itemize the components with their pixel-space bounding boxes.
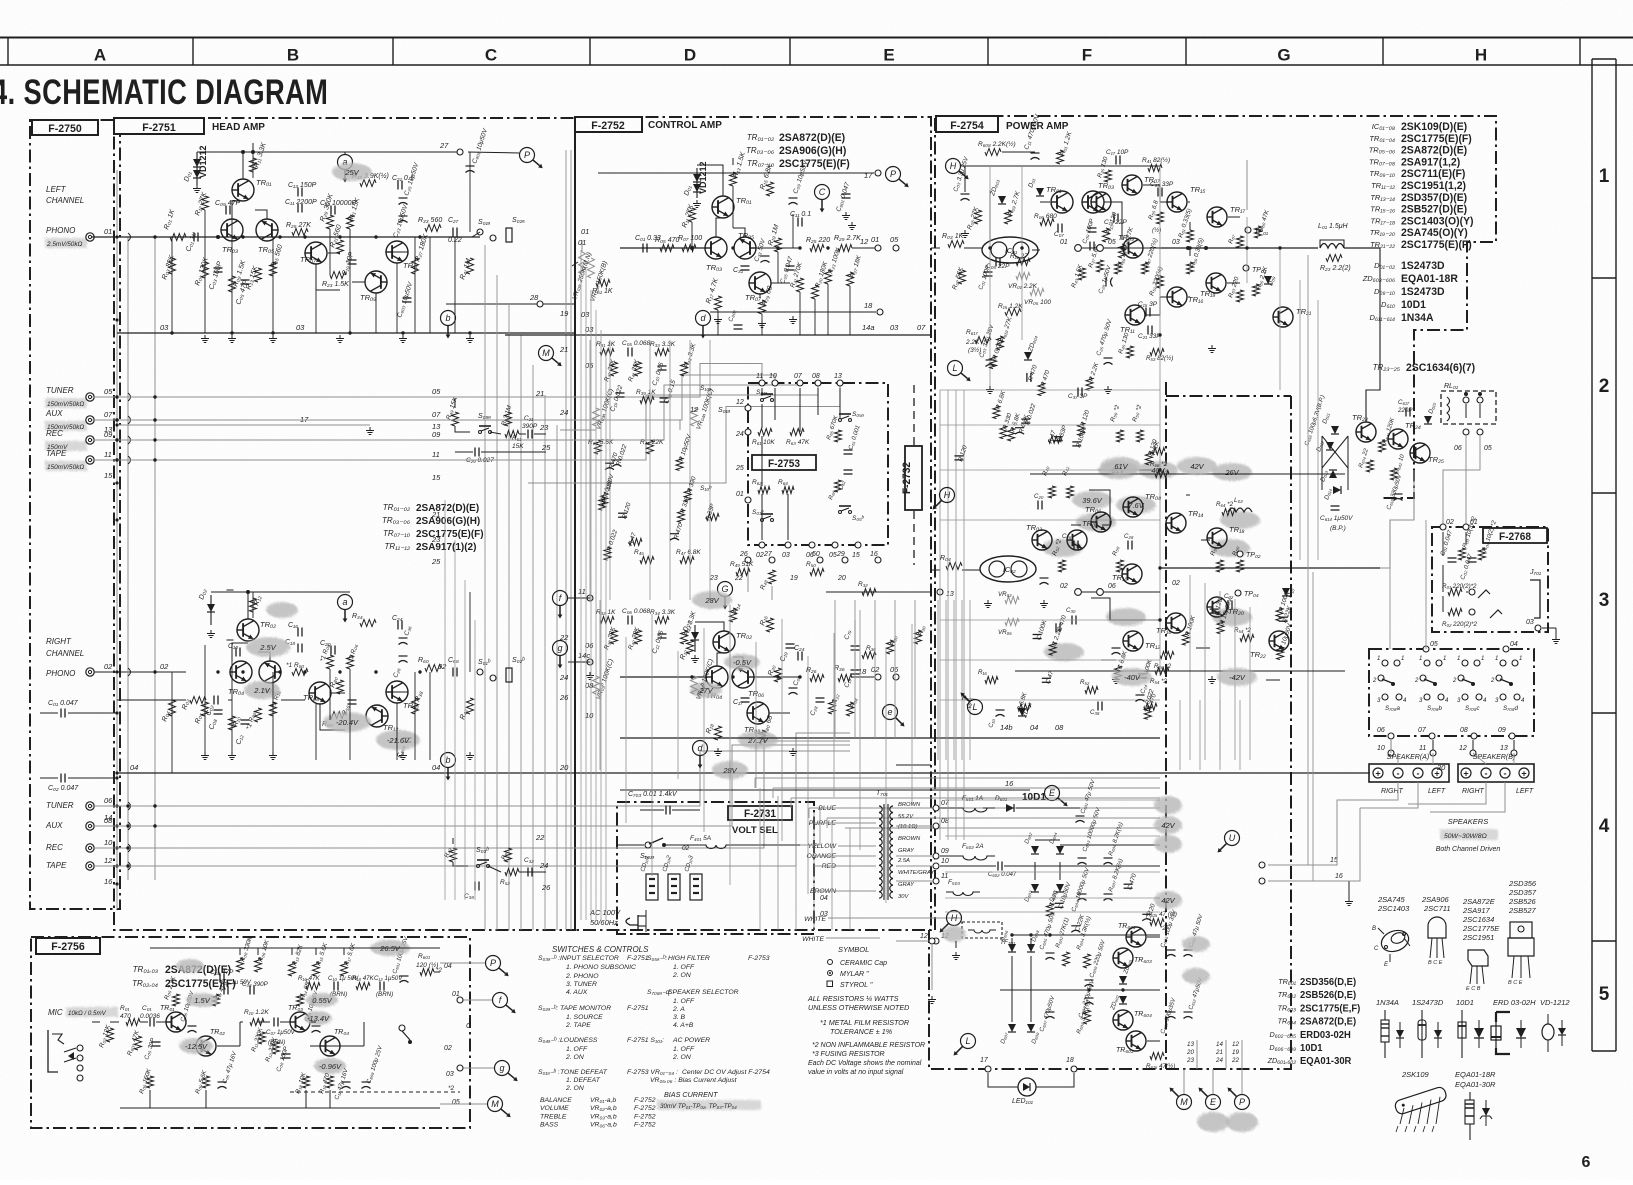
capacitor C801 bbox=[842, 193, 851, 195]
tone defeat sw mic bbox=[399, 1025, 405, 1031]
filler part C bbox=[1115, 666, 1122, 679]
R01 220 resistor bbox=[1448, 589, 1462, 596]
C608 C609 220u50V bbox=[1085, 979, 1094, 981]
filler part R bbox=[1145, 452, 1152, 465]
filler part R bbox=[993, 406, 1000, 419]
filler part R bbox=[1000, 426, 1007, 439]
connector L lower channel bbox=[968, 700, 983, 715]
VR02 VR06 pots lower bbox=[1005, 597, 1019, 604]
connector H lower channel bbox=[940, 488, 955, 503]
power amp long verticals to speakers bbox=[1189, 575, 1191, 760]
connector P control bbox=[886, 167, 901, 182]
capacitor C09 47P bbox=[225, 206, 227, 215]
resistor R13 1.5K bbox=[730, 172, 737, 186]
capacitor C11 470u50V bbox=[1031, 152, 1040, 154]
resistor R04 power bbox=[946, 563, 962, 570]
wires F-2753 bbox=[761, 388, 763, 396]
verticals head amp upper bbox=[171, 237, 173, 333]
right margin row band bbox=[1591, 59, 1593, 1051]
svg-text:H: H bbox=[944, 490, 951, 500]
transistor TR06 bbox=[259, 661, 281, 683]
mid verticals to 14b bbox=[834, 600, 836, 738]
connector M mid bbox=[539, 346, 554, 361]
R604 3.3K bbox=[1084, 954, 1091, 968]
transistor TR601 bbox=[1126, 927, 1146, 947]
regulator bridge D606-D609 bbox=[1008, 944, 1016, 952]
resistor R05 27K bbox=[975, 210, 982, 224]
input bus verticals bbox=[116, 170, 118, 909]
psu long gray horizontals bbox=[945, 799, 1160, 801]
filler part R bbox=[678, 510, 685, 523]
mic jack bbox=[48, 1030, 58, 1072]
resistor R21 270K bbox=[797, 278, 804, 292]
test points TP01 TP03 bbox=[1245, 227, 1251, 233]
speaker B terminal strip bbox=[1458, 764, 1534, 782]
svg-text:R₅₄ *2: R₅₄ *2 bbox=[1150, 678, 1168, 685]
bias rail bbox=[172, 319, 470, 321]
R12 220K bbox=[273, 1042, 280, 1054]
diode D01 power bbox=[1036, 188, 1044, 196]
resistor R23 2.2 bbox=[1326, 255, 1342, 262]
transistor TR04 control bbox=[706, 666, 728, 688]
transistor TR01 bbox=[232, 179, 254, 201]
voltage selector plugs CD101-103 bbox=[646, 874, 658, 900]
second output rail bbox=[1160, 567, 1380, 569]
transistor TR11 power bbox=[1125, 305, 1145, 325]
filler part R bbox=[1276, 608, 1283, 621]
resistor R01 1K bbox=[170, 234, 186, 241]
block F-2731 border bbox=[617, 802, 814, 934]
H line top bbox=[935, 165, 953, 167]
extra verticals C column lower bbox=[444, 500, 446, 900]
svg-text:42V: 42V bbox=[1190, 462, 1204, 471]
svg-text:61V: 61V bbox=[1114, 462, 1128, 471]
R31 R33 rows tone bbox=[600, 349, 614, 356]
block F-2750 label box bbox=[32, 120, 98, 135]
wires selector to power bbox=[1390, 740, 1392, 753]
R52 C38 bottom bbox=[1085, 687, 1098, 694]
svg-text:C₃₇ 3P: C₃₇ 3P bbox=[1068, 393, 1088, 400]
H connector psu bbox=[947, 911, 962, 926]
transistor TR06 power bbox=[1091, 512, 1111, 532]
resistor R25 27K bbox=[292, 229, 308, 236]
filler part R bbox=[954, 455, 963, 457]
filler part R bbox=[599, 497, 606, 510]
filler part R bbox=[1015, 427, 1024, 429]
block F-2753 border bbox=[748, 383, 888, 545]
wires F-2768 bbox=[1442, 532, 1444, 556]
filler part R bbox=[990, 356, 997, 369]
right edge verticals between 2752 2754 bbox=[937, 600, 939, 760]
connector d upper bbox=[696, 311, 711, 326]
bus 04 bbox=[117, 772, 1370, 774]
svg-text:R₆₆ *2: R₆₆ *2 bbox=[1150, 461, 1168, 468]
selector pins top bbox=[1423, 646, 1429, 652]
wire net upper head amp bbox=[197, 151, 350, 153]
svg-text:R₁₆: R₁₆ bbox=[978, 669, 987, 676]
R66 *2 resistor bbox=[1155, 471, 1169, 478]
connector a right bbox=[338, 595, 353, 610]
R62 R64 bbox=[758, 487, 770, 494]
staircase from inputs to F-2753 bbox=[430, 364, 762, 398]
voltage blobs control bbox=[692, 591, 732, 609]
long verticals inside F-2752 bbox=[589, 340, 591, 600]
wires relay to F-2768 bbox=[1465, 436, 1467, 527]
transistor TR16 power bbox=[1167, 287, 1187, 307]
varistor D01 VD1212 control bbox=[696, 168, 698, 198]
mic output connectors bbox=[486, 956, 501, 971]
pin 28 line bbox=[446, 303, 575, 305]
grounds power lower bbox=[987, 600, 989, 604]
filler part R bbox=[1277, 647, 1284, 660]
transistor TR04 power bbox=[1067, 530, 1087, 550]
transistor TR03 power bbox=[1082, 191, 1104, 213]
switch S02a bbox=[506, 228, 512, 242]
capacitor C802 bbox=[734, 324, 743, 326]
speaker A terminal strip bbox=[1369, 764, 1449, 782]
R03 12K bbox=[107, 1028, 114, 1042]
L connector psu bbox=[961, 1034, 976, 1049]
transistor TR13 power bbox=[1123, 238, 1143, 258]
cable C marks bbox=[128, 233, 131, 241]
R54 *2 resistor bottom bbox=[1155, 668, 1169, 675]
resistor R03 82K bbox=[169, 258, 176, 274]
wires output stage bbox=[1112, 201, 1122, 203]
F-2752 to F-2754 connecting pins bbox=[1075, 245, 1082, 252]
filler part R bbox=[618, 512, 627, 514]
speaker selector switches bbox=[1382, 660, 1388, 666]
cross wires protection bbox=[1322, 436, 1348, 468]
secondary taps bbox=[896, 807, 932, 809]
bottom staircase to power supply bbox=[755, 777, 1160, 779]
resistor R33 560 bbox=[425, 225, 441, 232]
voltage blobs right channel bbox=[246, 637, 290, 657]
resistor R15 6.8K bbox=[767, 182, 774, 196]
R603 47K bbox=[135, 1036, 142, 1050]
speaker selector block border bbox=[1369, 649, 1534, 736]
capacitor C13 100P bbox=[1088, 227, 1097, 229]
resistor R13 15K bbox=[255, 268, 262, 282]
D610 diode bbox=[1424, 416, 1432, 424]
resistor R01 1.2K power bbox=[1057, 150, 1064, 164]
transistor TR15 power bbox=[1167, 192, 1187, 212]
transistor TR08 control bbox=[747, 702, 769, 724]
lower channel small parts bbox=[1049, 486, 1056, 498]
diode D10 bbox=[1282, 588, 1290, 596]
pin 03 F-2768 bbox=[1535, 625, 1541, 631]
resistor R02 bbox=[190, 697, 206, 704]
resistor R05 120K bbox=[202, 262, 209, 278]
C610 100u35V bbox=[1167, 1011, 1176, 1013]
switch S101a bbox=[645, 842, 651, 848]
diode D02 bbox=[210, 595, 212, 625]
resistor R09 1.5K bbox=[229, 276, 236, 292]
resistor R41 1M bbox=[467, 258, 474, 274]
selector pins bottom bbox=[1388, 733, 1394, 739]
C614 1u50V BP bbox=[1331, 505, 1340, 507]
capacitor C15 10000P bbox=[330, 206, 332, 215]
pot VR01 2.2K bbox=[1016, 273, 1030, 280]
line 17 bbox=[117, 424, 370, 426]
junction dots on rails bbox=[153, 235, 156, 238]
resistor R04 bbox=[169, 700, 176, 716]
resistor R27 180K bbox=[412, 258, 419, 274]
voltage blob upper channel bbox=[332, 163, 372, 181]
resistor R10 bbox=[227, 589, 234, 591]
C01 0.0036 bbox=[149, 1018, 151, 1027]
input network R05 470 R07 100 bbox=[660, 245, 674, 252]
wires control upper bbox=[697, 165, 723, 196]
resistor R06 680 bbox=[1040, 219, 1054, 226]
block F-2753 label box bbox=[752, 455, 816, 470]
L connector power bbox=[948, 361, 963, 376]
transistor TR10 power bbox=[1122, 564, 1142, 584]
input feed lines to selector bbox=[92, 396, 430, 398]
capacitor C25 bbox=[399, 197, 408, 199]
14a 03 07 pins line bbox=[940, 334, 1160, 336]
wires right channel bbox=[211, 591, 350, 593]
switch S01a wires bbox=[472, 232, 480, 237]
resistor R19 1M bbox=[775, 238, 782, 252]
pot VR05 100 bbox=[1030, 289, 1044, 296]
svg-text:R₆₁₀: R₆₁₀ bbox=[962, 695, 974, 702]
lower staircase right channel to volt area bbox=[92, 805, 430, 807]
filler part R bbox=[1026, 373, 1028, 382]
transistor TR05 power bbox=[1091, 192, 1111, 212]
resistor R21 560 bbox=[337, 240, 344, 254]
ground marks head amp bbox=[196, 185, 198, 189]
block F-2731 label box bbox=[728, 806, 792, 820]
line from output rail to relay bbox=[1366, 248, 1380, 422]
transistor TR01 power bbox=[1051, 191, 1073, 213]
svg-text:R₅₂: R₅₂ bbox=[1080, 679, 1090, 686]
page header band bbox=[0, 37, 1633, 39]
R48 R50 R32 bbox=[769, 570, 776, 584]
connector d e bbox=[693, 741, 708, 756]
staircase into psu pins bbox=[932, 807, 985, 809]
connector C circled bbox=[815, 185, 830, 200]
TR23 TR24 TR25 protection bbox=[1356, 422, 1376, 442]
filler part R bbox=[1021, 418, 1030, 420]
filler part R bbox=[1054, 436, 1063, 438]
wires power to bottom bbox=[1179, 700, 1181, 770]
resistor R25 220 bbox=[810, 245, 824, 252]
capacitor C10 bbox=[235, 648, 237, 657]
R616 47 bbox=[1150, 1053, 1164, 1060]
R45 R52 R54 network under tone bbox=[640, 557, 654, 564]
left long verticals of power amp bbox=[939, 390, 941, 840]
feeder verticals inside F-2752 left bbox=[580, 250, 582, 920]
R610 C10 ZD406 bottom left bbox=[985, 677, 998, 684]
12 pin mid bbox=[929, 938, 935, 944]
R615 47 bbox=[1150, 919, 1164, 926]
capacitor C09 bbox=[789, 197, 798, 199]
R65 C61 C62 bbox=[835, 430, 842, 442]
svg-text:-42V: -42V bbox=[1229, 673, 1246, 682]
resistor R61 10K bbox=[758, 429, 772, 436]
transistor TR08 bbox=[309, 682, 331, 704]
switch S01a contacts bbox=[761, 399, 764, 402]
svg-text:C₃₈: C₃₈ bbox=[1090, 709, 1100, 716]
left pins f g bbox=[553, 591, 568, 606]
wire output rail to selector bbox=[1389, 568, 1391, 649]
ZD604 bbox=[1024, 352, 1032, 360]
transistor TR604 bbox=[1113, 1010, 1133, 1030]
C605 470u50V bbox=[1046, 952, 1055, 954]
transistor TR02 mic bbox=[196, 1036, 216, 1056]
AC plug bbox=[626, 915, 638, 929]
resistor R17 4.7K bbox=[715, 296, 722, 310]
transistor TR16b power bbox=[1166, 613, 1186, 633]
filler part R bbox=[1008, 428, 1015, 441]
lower channel upper rail bbox=[1030, 473, 1345, 475]
LED101 bbox=[1018, 1078, 1036, 1096]
capacitor C03 3.3u25V bbox=[961, 193, 970, 195]
capacitor C11 0.1 bbox=[797, 218, 799, 227]
second stage parts bbox=[289, 962, 296, 976]
capacitor C27 0.22 bbox=[452, 228, 454, 237]
filler part C bbox=[1055, 623, 1057, 632]
psu wires bbox=[1012, 934, 1160, 936]
transistor TR07 bbox=[305, 242, 327, 264]
relay RL01 box bbox=[1441, 391, 1496, 424]
jack switch arrow bbox=[1490, 610, 1502, 618]
connectors M E P bottom bbox=[1177, 1095, 1192, 1110]
capacitor C02 bbox=[213, 696, 215, 705]
R15 5.6K right bbox=[341, 962, 348, 976]
resistor R11 27 bbox=[1016, 259, 1030, 266]
staircase vertical steps bottom center bbox=[754, 778, 756, 788]
secondary pins bbox=[933, 805, 939, 811]
capacitor C01 100P bbox=[984, 271, 993, 273]
transistor TR09 bbox=[365, 271, 387, 293]
C79 R36 pair bbox=[851, 645, 860, 647]
resistor R09 2.7K bbox=[1005, 210, 1012, 224]
transistor TR02 control bbox=[713, 631, 735, 653]
connector b right bbox=[441, 753, 456, 768]
capacitor C05 0.047 bbox=[786, 265, 795, 267]
R605 3.3K bbox=[1084, 1010, 1091, 1024]
C612 47u50V bbox=[1184, 1011, 1193, 1013]
wires psu top bbox=[940, 807, 955, 809]
connector H bbox=[946, 159, 961, 174]
resistor R12 right bbox=[250, 598, 257, 612]
resistor R15 1.2K power bbox=[1005, 309, 1021, 316]
bus 03 bbox=[117, 332, 575, 334]
transistor TR17 power bbox=[1207, 207, 1227, 227]
filler part C bbox=[1138, 673, 1147, 675]
IC02 FET pair bbox=[980, 556, 1036, 582]
transistor TR12 bbox=[366, 705, 388, 727]
extended selector buses bbox=[430, 396, 528, 398]
switch S01b bbox=[477, 669, 483, 675]
relay pins 06 05 bbox=[1463, 429, 1469, 435]
resistor R13 120 bbox=[1103, 228, 1110, 242]
filler part R bbox=[601, 493, 608, 506]
thermal fuse TF701 bbox=[962, 922, 1002, 938]
long gray horizontals power amp bbox=[940, 389, 1160, 391]
zener ZD602 bbox=[1119, 996, 1127, 1004]
resistor R11 27K bbox=[689, 208, 696, 222]
primary links to volt sel bbox=[800, 808, 838, 845]
block F-2754 border bbox=[935, 116, 1496, 930]
transistor TR01 mic bbox=[166, 1012, 186, 1032]
extra wires power output to selector bbox=[1267, 865, 1269, 881]
power supply block border bbox=[929, 930, 1291, 1069]
transistor TR19 power bbox=[1206, 273, 1226, 293]
blobs bottom connectors bbox=[1197, 1112, 1229, 1132]
svg-text:*2: *2 bbox=[966, 703, 972, 710]
block F-2750 border bbox=[30, 120, 120, 909]
output stage small parts bbox=[1115, 156, 1117, 165]
diode D601 10D1 bbox=[1006, 804, 1014, 812]
bus 01 left channel bbox=[92, 236, 480, 238]
transistor TR20 power bbox=[1207, 597, 1227, 617]
filler part R bbox=[605, 462, 614, 464]
VR01a pot bbox=[579, 252, 586, 274]
capacitor C33 bbox=[761, 255, 770, 257]
headphone jack J701 bbox=[1530, 580, 1540, 618]
capacitor C13 150P bbox=[297, 188, 299, 197]
pins 15 16 speakers bbox=[1268, 864, 1310, 866]
transistor TR12 power bbox=[1123, 631, 1143, 651]
filler part R bbox=[1152, 448, 1165, 455]
filler part R bbox=[670, 533, 679, 535]
E circled right bbox=[896, 764, 931, 766]
connector b bbox=[441, 311, 456, 326]
capacitor C11 2200P bbox=[297, 204, 299, 213]
lower channel bottom rail bbox=[1015, 670, 1345, 672]
block F-2756 border bbox=[31, 937, 470, 1128]
node 27 line to P bbox=[280, 151, 460, 153]
transistor TR04 bbox=[230, 661, 252, 683]
filler part R bbox=[1217, 621, 1224, 634]
capacitor C05 47P bbox=[241, 279, 250, 281]
R619 27K bbox=[997, 336, 1004, 350]
zener ZD603 bbox=[998, 196, 1006, 204]
R617 2.2K bbox=[975, 337, 991, 344]
switch S01b contacts bbox=[761, 519, 764, 522]
R01 470 bbox=[126, 1019, 140, 1026]
filler part C bbox=[1142, 913, 1151, 915]
resistor R07 56K bbox=[959, 270, 966, 284]
zener ZD601 bbox=[1119, 976, 1127, 984]
resistor R29 2.7K bbox=[838, 245, 852, 252]
capacitor C07 bbox=[1057, 224, 1059, 233]
filler part C bbox=[1018, 704, 1031, 711]
S05a switch bbox=[839, 419, 842, 422]
transistor TR14 power bbox=[1166, 513, 1186, 533]
filler part R bbox=[676, 458, 683, 471]
R18 47K right bbox=[356, 983, 370, 990]
transistor TR10 bbox=[386, 681, 408, 703]
block F-2756 label box bbox=[36, 938, 100, 954]
filler part R bbox=[1072, 441, 1081, 443]
resistor R79 68 bbox=[759, 300, 766, 314]
verticals control amp bbox=[691, 222, 693, 248]
transistor TR603 bbox=[1113, 948, 1133, 968]
line 20 lower bbox=[505, 772, 575, 774]
svg-text:-40V: -40V bbox=[1124, 673, 1141, 682]
block F-2754 label box bbox=[936, 116, 998, 132]
filler part R bbox=[1078, 423, 1085, 436]
C12 1u50V right bbox=[379, 982, 381, 991]
transistor TR08 power bbox=[1123, 497, 1143, 517]
filler part R bbox=[604, 547, 611, 560]
tone defeat switch wires bbox=[600, 420, 680, 430]
block F-2751 label box bbox=[114, 118, 204, 134]
filler part R bbox=[1049, 436, 1062, 443]
